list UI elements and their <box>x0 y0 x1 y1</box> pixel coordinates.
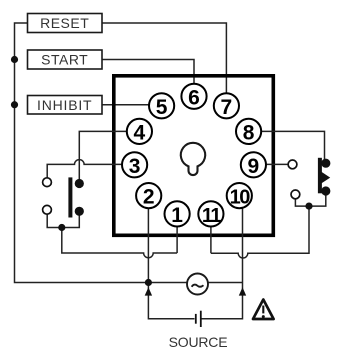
wire: pin 9 to right NC open contact <box>253 163 292 165</box>
open contact right 1 <box>288 160 297 169</box>
wire: pin 3 to left NC open contact (hops over pin-4 wire) <box>47 160 134 183</box>
wire: RESET box to pin 7 <box>102 23 226 106</box>
svg-text:8: 8 <box>243 121 255 144</box>
node: junction dot left common <box>58 224 65 231</box>
keyhole (socket key way) <box>181 143 205 175</box>
wire: DC drop right (below arrow) to battery <box>201 283 243 319</box>
wire: DC drop left (below arrow) to battery <box>148 283 194 319</box>
wire: left supply rail from RESET down to AC line <box>15 23 149 283</box>
battery: long plate <box>200 311 202 327</box>
arrow: DC polarity arrow left <box>145 287 152 295</box>
wire: pin 4 to left contact common (top fixed dot) <box>79 131 139 183</box>
contact fixed dot right top <box>321 159 330 168</box>
pin 5 <box>149 93 174 119</box>
wire: pin 11 down <box>210 214 212 253</box>
pin 1 <box>165 201 190 227</box>
open contact left 1 <box>43 178 52 187</box>
contact fixed dot right bottom <box>321 186 330 195</box>
pin 7 <box>214 93 239 119</box>
warning triangle <box>253 300 274 320</box>
contact fixed dot left bottom <box>75 207 84 216</box>
svg-text:SOURCE: SOURCE <box>169 334 228 350</box>
wire: pin 2 down to AC line <box>147 196 149 283</box>
svg-text:START: START <box>41 52 88 68</box>
pin 9 <box>241 152 266 178</box>
RESET box <box>28 14 103 33</box>
wire: START box to pin 6 <box>102 60 194 97</box>
svg-text:9: 9 <box>248 155 260 178</box>
pin 11 <box>198 201 223 227</box>
svg-text:7: 7 <box>221 96 233 119</box>
contact fixed dot left top <box>75 179 84 188</box>
svg-text:6: 6 <box>188 86 200 109</box>
node: junction dot right common <box>305 203 312 210</box>
START box <box>28 50 103 69</box>
wire: pin 10 down to AC line <box>242 203 244 283</box>
contact bar right (moving contact) <box>318 158 322 194</box>
svg-text:3: 3 <box>129 155 141 178</box>
svg-text:5: 5 <box>156 96 168 119</box>
wire: right common down and over to pin 11 (hops under pin-10 wire) <box>211 206 309 258</box>
wire: AC line through source circle <box>149 282 243 284</box>
wire: left open contact 2 to common bottom dot <box>47 210 79 228</box>
pin 8 <box>236 119 261 145</box>
wire: left common down and over to pin 1 (hops under pin-2 wire) <box>62 228 177 258</box>
node: junction dot START on rail <box>11 56 18 63</box>
wire: pin 1 down <box>176 214 178 253</box>
contact arrow right (delayed contact triangle) <box>321 171 331 184</box>
battery: short plate <box>195 314 197 324</box>
open contact left 2 <box>43 205 52 214</box>
pin 6 <box>181 84 206 110</box>
svg-text:2: 2 <box>143 186 155 209</box>
socket body (11-pin octal socket outline) <box>114 76 273 236</box>
svg-text:11: 11 <box>202 205 222 227</box>
AC source symbol <box>187 274 208 295</box>
node: junction dot AC line / pin-2 wire <box>145 279 152 286</box>
pin 4 <box>127 119 152 145</box>
svg-text:RESET: RESET <box>40 15 89 31</box>
arrow: DC polarity arrow right <box>239 287 246 295</box>
pin 2 <box>136 183 161 209</box>
wire: INHIBIT box to pin 5 <box>102 104 162 106</box>
contact bar left (moving contact) <box>68 177 72 217</box>
INHIBIT box <box>28 96 103 115</box>
open contact right 2 <box>291 190 300 199</box>
svg-text:INHIBIT: INHIBIT <box>37 97 92 113</box>
wire: pin 8 to right contact common (top fixed dot) <box>249 131 325 163</box>
node: junction dot INHIBIT on rail <box>11 101 18 108</box>
svg-text:1: 1 <box>171 204 183 227</box>
svg-text:10: 10 <box>230 187 251 209</box>
pin 3 <box>122 152 147 178</box>
wire: right open contact 2 to common bottom dot <box>295 191 325 206</box>
svg-text:4: 4 <box>134 121 146 144</box>
pin 10 <box>227 183 252 209</box>
